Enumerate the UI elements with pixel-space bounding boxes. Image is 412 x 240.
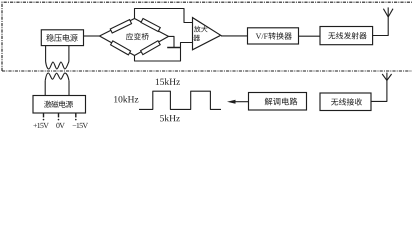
label V/F转换器 — [256, 34, 262, 39]
wire amplifier to V/F converter — [221, 35, 248, 37]
wire coil to excitation supply right leg — [68, 81, 70, 96]
label 激磁电源 — [44, 101, 51, 108]
label 无线发射器 — [328, 33, 335, 40]
bridge resistor lower-left — [111, 41, 131, 55]
wire supply to bridge — [84, 35, 100, 37]
demodulator box 解调电路 — [249, 93, 307, 111]
wire bridge top to amplifier input — [135, 9, 193, 23]
wireless receiver box 无线接收 — [320, 93, 371, 111]
demodulated square waveform — [139, 91, 221, 109]
label 5kHz — [160, 115, 164, 121]
excitation power supply box 激磁电源 — [33, 96, 86, 114]
strain bridge diamond wires — [100, 19, 169, 56]
wire supply to coupling coil left leg — [45, 46, 47, 62]
terminal stub 0V — [58, 113, 60, 117]
label 放大 — [194, 26, 201, 32]
label 器 — [193, 35, 200, 41]
stationary coupling coil (primary) — [45, 73, 69, 81]
regulated power supply box 稳压电源 — [41, 30, 83, 46]
wire bridge bottom to amplifier input — [135, 43, 193, 62]
label 15kHz — [156, 79, 159, 85]
label 应变桥 — [126, 33, 133, 40]
label 无线接收 — [331, 99, 338, 106]
transmit antenna — [387, 7, 389, 17]
wire supply to coupling coil right leg — [68, 46, 70, 62]
dashed rotating-part frame — [2, 2, 412, 71]
label 10kHz — [114, 96, 117, 102]
wire transmitter to antenna — [373, 17, 389, 36]
terminal stub -15V — [75, 113, 77, 117]
bridge resistor lower-right — [141, 41, 161, 55]
receive antenna — [386, 73, 388, 81]
op-amp 放大器 triangle — [193, 18, 221, 50]
wire coil to excitation supply left leg — [44, 81, 46, 96]
wireless transmitter box 无线发射器 — [320, 27, 373, 45]
bridge resistor upper-left — [110, 20, 131, 33]
rotating coupling coil (secondary) — [46, 62, 69, 70]
ground symbol — [167, 47, 180, 49]
wire bridge right to ground — [169, 36, 175, 47]
arrow demodulator output — [234, 101, 249, 103]
wire V/F to transmitter — [299, 35, 321, 37]
label +15V — [33, 124, 37, 128]
label 0V — [56, 123, 59, 128]
label 稳压电源 — [46, 34, 54, 42]
V/F converter box — [248, 28, 299, 44]
label 解调电路 — [265, 98, 273, 106]
bridge resistor upper-right — [141, 18, 160, 31]
label -15V — [73, 124, 77, 126]
terminal stub +15V — [43, 113, 45, 117]
wire receiver to antenna — [371, 80, 387, 101]
